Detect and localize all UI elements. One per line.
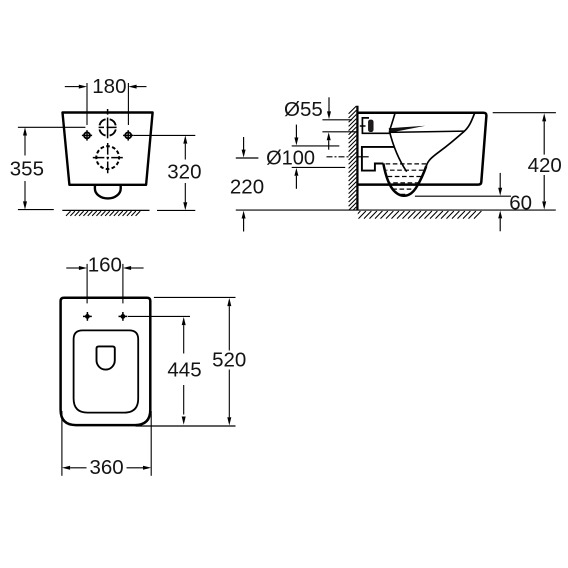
inlet spigot centerline tick <box>360 125 366 127</box>
dimension 320 line and arrows <box>183 135 187 143</box>
outlet crosshair horizontal <box>93 157 123 159</box>
dimension 355 top extension <box>18 126 86 128</box>
outlet circle dashed <box>96 146 119 169</box>
inlet crosshair horizontal <box>99 126 117 128</box>
svg-text:Ø55: Ø55 <box>284 98 323 121</box>
outlet centerline tick <box>358 156 368 158</box>
plan mounting hole right <box>119 312 128 321</box>
flush jet wedge <box>389 126 426 133</box>
dimension 220 arrows <box>243 137 245 150</box>
dimension D55 top line <box>322 119 352 121</box>
inlet spigot pipe <box>369 120 374 132</box>
rear ground hatch <box>66 211 140 216</box>
dimension 360 extension lines <box>61 411 63 476</box>
wall hatch <box>349 106 357 215</box>
rim shelf line <box>389 131 464 132</box>
dimension D100 top line <box>292 145 340 147</box>
svg-text:320: 320 <box>167 160 201 183</box>
dimension 445 top extension <box>128 315 190 317</box>
svg-text:520: 520 <box>212 348 246 371</box>
rear ground line <box>62 209 149 211</box>
dimension 220 top line <box>236 157 259 159</box>
dimension 60 arrows <box>499 173 501 188</box>
rear trap semicircle <box>95 185 121 199</box>
dimension D55 arrows <box>328 97 330 112</box>
dimension 320 bottom extension <box>157 209 195 211</box>
outlet centerline dash-dot <box>327 156 353 158</box>
flush jet line <box>389 131 406 172</box>
dimension 180 arrows <box>65 86 80 88</box>
svg-text:355: 355 <box>10 157 44 180</box>
dimension 320 top extension <box>134 134 196 136</box>
svg-text:420: 420 <box>528 154 562 177</box>
bowl inner-left edge <box>389 114 395 131</box>
inlet spigot socket <box>362 118 389 133</box>
outlet step outline <box>362 147 394 171</box>
side body outline <box>358 113 487 185</box>
plan body outline <box>61 298 151 425</box>
svg-text:Ø100: Ø100 <box>266 148 315 170</box>
plan rim inner outline <box>74 330 139 412</box>
rear mounting hole right <box>123 130 133 140</box>
rear mounting hole left <box>82 130 92 140</box>
dimension 360 arrows <box>62 466 70 470</box>
dimension 520 line and arrows <box>227 298 231 306</box>
svg-text:360: 360 <box>89 456 123 479</box>
rear body outline <box>63 113 153 185</box>
trap curve <box>383 163 426 195</box>
dimension D55 bottom line <box>322 131 356 133</box>
inlet crosshair vertical <box>107 109 109 138</box>
svg-text:60: 60 <box>509 192 532 215</box>
floor line <box>236 209 556 211</box>
svg-text:160: 160 <box>88 253 122 276</box>
wall line <box>356 106 358 211</box>
dimension 355 line and arrows <box>23 127 27 135</box>
water dashes <box>386 164 427 194</box>
dimension 420 line and arrows <box>542 113 546 121</box>
svg-text:180: 180 <box>92 75 126 98</box>
dimension 445 line and arrows <box>182 317 186 325</box>
svg-text:220: 220 <box>230 176 264 199</box>
svg-text:445: 445 <box>167 359 201 382</box>
inlet circle dashed <box>99 119 115 135</box>
plan water spot <box>97 346 115 369</box>
dimension 160 arrows <box>66 267 80 269</box>
dimension 445/520 bottom extension <box>136 425 236 427</box>
outlet crosshair vertical <box>107 143 109 173</box>
dimension 160 extension lines <box>86 264 88 304</box>
dimension 355 bottom extension <box>18 209 54 211</box>
dimension D100 arrows <box>295 125 297 138</box>
bowl interior curve <box>426 113 475 167</box>
floor hatch <box>353 211 481 219</box>
dimension 180 extension lines <box>86 83 88 125</box>
dimension D100 bottom line <box>292 166 346 168</box>
plan mounting hole left <box>83 312 92 321</box>
dimension 60 extension line <box>415 195 511 197</box>
dimension 520 top extension <box>154 296 236 298</box>
dimension 420 top extension <box>493 112 556 114</box>
